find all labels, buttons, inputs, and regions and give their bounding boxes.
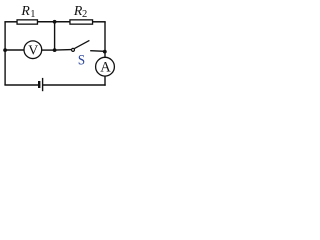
svg-text:1: 1: [30, 9, 35, 20]
wire right rail lower: [104, 76, 106, 86]
switch fixed-contact wire: [90, 50, 105, 53]
node dot on left rail: [3, 48, 7, 52]
wire top left segment: [4, 21, 17, 23]
svg-text:2: 2: [82, 9, 87, 20]
svg-text:A: A: [100, 59, 111, 75]
svg-text:S: S: [78, 52, 85, 68]
node J2 junction dot: [53, 48, 57, 52]
switch S lever: [74, 40, 89, 48]
wire J1 down to J2: [54, 22, 56, 50]
resistor R2: [70, 20, 93, 24]
resistor R1: [17, 20, 37, 24]
wire voltmeter branch left: [5, 49, 24, 51]
voltmeter V: [24, 41, 42, 59]
switch S pivot circle: [72, 48, 75, 51]
battery: short thick negative plate: [38, 81, 40, 88]
svg-text:R: R: [20, 3, 30, 18]
wire right rail upper: [104, 22, 106, 58]
wire bottom right segment: [43, 84, 106, 86]
wire top right segment: [92, 21, 106, 23]
node J1 junction dot: [53, 20, 57, 24]
wire J2 to switch pivot: [55, 49, 72, 52]
ammeter A: [96, 57, 115, 76]
node dot at switch/rail junction: [103, 50, 107, 54]
svg-text:V: V: [28, 42, 38, 57]
wire left rail: [4, 22, 6, 85]
wire bottom left segment: [4, 84, 40, 86]
battery: long positive plate: [42, 78, 44, 91]
wire top middle segment: [37, 21, 70, 23]
wire voltmeter branch right: [42, 49, 55, 51]
